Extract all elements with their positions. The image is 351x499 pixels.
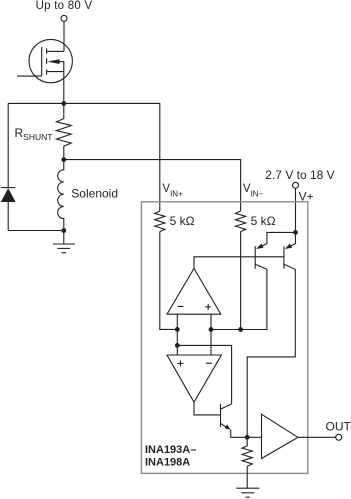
- resistor RSHUNT: [56, 103, 71, 159]
- wire A1 minus down to A2 plus: [176, 329, 178, 355]
- wire diode anode down: [7, 202, 9, 231]
- node V+ mirror: [293, 230, 298, 235]
- svg-text:INA198A: INA198A: [145, 457, 190, 469]
- wire shunt-top rail left: [8, 102, 64, 104]
- node shunt top: [61, 101, 66, 106]
- transistor Q2 collector: [221, 404, 232, 409]
- svg-text:Up to 80 V: Up to 80 V: [36, 0, 93, 12]
- wire A1 minus stub: [176, 314, 178, 329]
- transistor Q1 channel segment top: [46, 48, 48, 53]
- diode D1 triangle: [1, 188, 16, 202]
- wire V+ down: [295, 188, 297, 232]
- terminal 80V: [61, 15, 67, 21]
- wire left rail down to diode: [7, 103, 9, 187]
- svg-text:5 kΩ: 5 kΩ: [170, 214, 195, 228]
- svg-text:VIN−: VIN−: [243, 183, 264, 198]
- terminal OUT: [336, 434, 342, 440]
- ground IC: [246, 473, 248, 488]
- transistor Q3 bar: [254, 246, 256, 269]
- transistor Q1 channel segment bottom: [46, 69, 48, 74]
- A2 minus: [206, 362, 212, 364]
- wire A1 plus to Q3 collector: [211, 269, 267, 329]
- node shunt bottom: [61, 157, 66, 162]
- transistor Q3 collector: [255, 264, 267, 269]
- transistor Q1 gate plate: [41, 47, 43, 76]
- svg-text:INA193A–: INA193A–: [145, 444, 196, 456]
- buffer A3: [262, 414, 298, 458]
- node solenoid bottom: [61, 228, 66, 233]
- wire A1 plus stub: [210, 314, 212, 329]
- transistor Q1 channel segment middle: [46, 58, 48, 64]
- wire A2 output to Q2 base: [194, 402, 221, 415]
- op-amp A2: [167, 355, 221, 402]
- wire buffer output: [298, 436, 336, 438]
- resistor R2 5k: [155, 211, 165, 232]
- transistor Q1 body arrow: [47, 59, 59, 64]
- inductor L1 solenoid: [58, 160, 64, 231]
- wire terminal to MOSFET drain stub: [63, 21, 65, 51]
- transistor Q1 body tie: [59, 62, 64, 72]
- transistor Q4 emitter: [287, 232, 296, 248]
- transistor Q1 PMOS circle: [29, 39, 72, 82]
- transistor Q2 emitter: [221, 423, 228, 428]
- transistor Q4 bar: [283, 246, 285, 269]
- resistor R4: [242, 437, 252, 473]
- wire shunt-top to VIN+: [64, 103, 160, 211]
- svg-text:2.7 V to 18 V: 2.7 V to 18 V: [265, 168, 334, 182]
- op-amp A1: [167, 268, 221, 314]
- wire feedback to Q2 collector: [177, 345, 231, 404]
- svg-text:OUT: OUT: [326, 419, 351, 433]
- wire buffer input: [247, 436, 261, 438]
- IC box INA193A-INA198A: [141, 202, 307, 474]
- svg-text:RSHUNT: RSHUNT: [15, 126, 53, 142]
- wire MOSFET source down: [63, 72, 65, 104]
- transistor Q1 source stub: [47, 71, 64, 73]
- svg-text:Solenoid: Solenoid: [71, 186, 118, 200]
- wire R2 to A1 minus: [160, 232, 178, 330]
- wire A1 plus down to A2 minus: [210, 330, 212, 356]
- svg-text:5 kΩ: 5 kΩ: [251, 214, 276, 228]
- node A1 plus: [209, 327, 214, 332]
- wire bottom left rail: [8, 230, 64, 232]
- wire A1 output to mirror bases: [194, 257, 284, 269]
- transistor Q1 drain stub: [47, 50, 64, 52]
- wire R3 down: [240, 232, 242, 330]
- A2 plus: [177, 362, 183, 364]
- transistor Q4 collector: [247, 264, 295, 437]
- transistor Q1 gate lead: [17, 75, 42, 77]
- svg-text:VIN+: VIN+: [162, 183, 183, 198]
- A1 minus: [178, 305, 184, 307]
- ground left: [63, 231, 65, 244]
- A1 plus: [205, 306, 211, 308]
- transistor Q2 bar: [220, 404, 222, 427]
- node output: [245, 435, 250, 440]
- wire shunt-bottom to VIN-: [64, 160, 241, 212]
- resistor R3 5k: [236, 211, 246, 232]
- node feedback: [175, 343, 180, 348]
- node A1 minus: [175, 327, 180, 332]
- node R3 bottom: [238, 327, 243, 332]
- terminal V+: [293, 182, 299, 188]
- diode D1 cathode bar: [1, 187, 15, 189]
- transistor Q3 emitter: [258, 232, 296, 248]
